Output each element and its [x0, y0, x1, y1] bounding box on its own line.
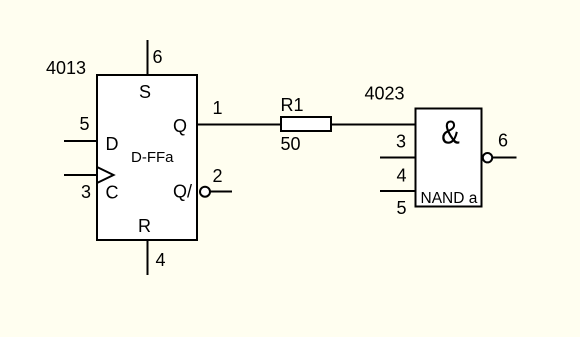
wire NAND output stub — [493, 157, 517, 159]
wire NAND input pin 5 — [380, 190, 416, 192]
clock edge triangle on pin C — [97, 167, 114, 183]
svg-text:D: D — [106, 134, 119, 154]
wire pin S top — [147, 40, 149, 76]
svg-text:4013: 4013 — [46, 58, 86, 78]
svg-text:3: 3 — [81, 182, 91, 202]
inversion bubble on Q/ — [200, 187, 210, 197]
svg-text:R1: R1 — [281, 95, 304, 115]
svg-text:&: & — [441, 113, 460, 151]
wire pin R bottom — [147, 239, 149, 275]
NAND gate U2 body — [416, 109, 482, 207]
svg-text:C: C — [106, 183, 119, 203]
svg-text:4: 4 — [396, 166, 406, 186]
svg-text:5: 5 — [396, 198, 406, 218]
svg-text:6: 6 — [498, 131, 508, 151]
wire resistor to NAND pin 3 — [330, 124, 416, 126]
svg-text:R: R — [138, 216, 151, 236]
wire pin D — [64, 140, 98, 142]
svg-text:Q: Q — [173, 116, 187, 136]
wire Q output to resistor — [196, 124, 282, 126]
svg-text:4: 4 — [155, 250, 165, 270]
svg-text:Q/: Q/ — [173, 182, 192, 202]
svg-text:D-FFa: D-FFa — [131, 149, 174, 166]
svg-text:2: 2 — [212, 166, 222, 186]
wire pin C — [64, 174, 98, 176]
svg-text:6: 6 — [152, 47, 162, 67]
wire NAND input pin 4 — [380, 157, 416, 159]
svg-text:5: 5 — [79, 114, 89, 134]
flip-flop U1 body — [97, 75, 197, 240]
svg-text:1: 1 — [212, 98, 222, 118]
svg-text:4023: 4023 — [365, 84, 405, 104]
svg-text:NAND a: NAND a — [421, 190, 478, 207]
svg-text:3: 3 — [396, 132, 406, 152]
svg-text:50: 50 — [281, 134, 301, 154]
wire pin Q/ stub — [210, 191, 232, 193]
resistor R1 body — [281, 117, 331, 131]
inversion bubble on NAND output — [483, 153, 492, 162]
svg-text:S: S — [139, 82, 151, 102]
